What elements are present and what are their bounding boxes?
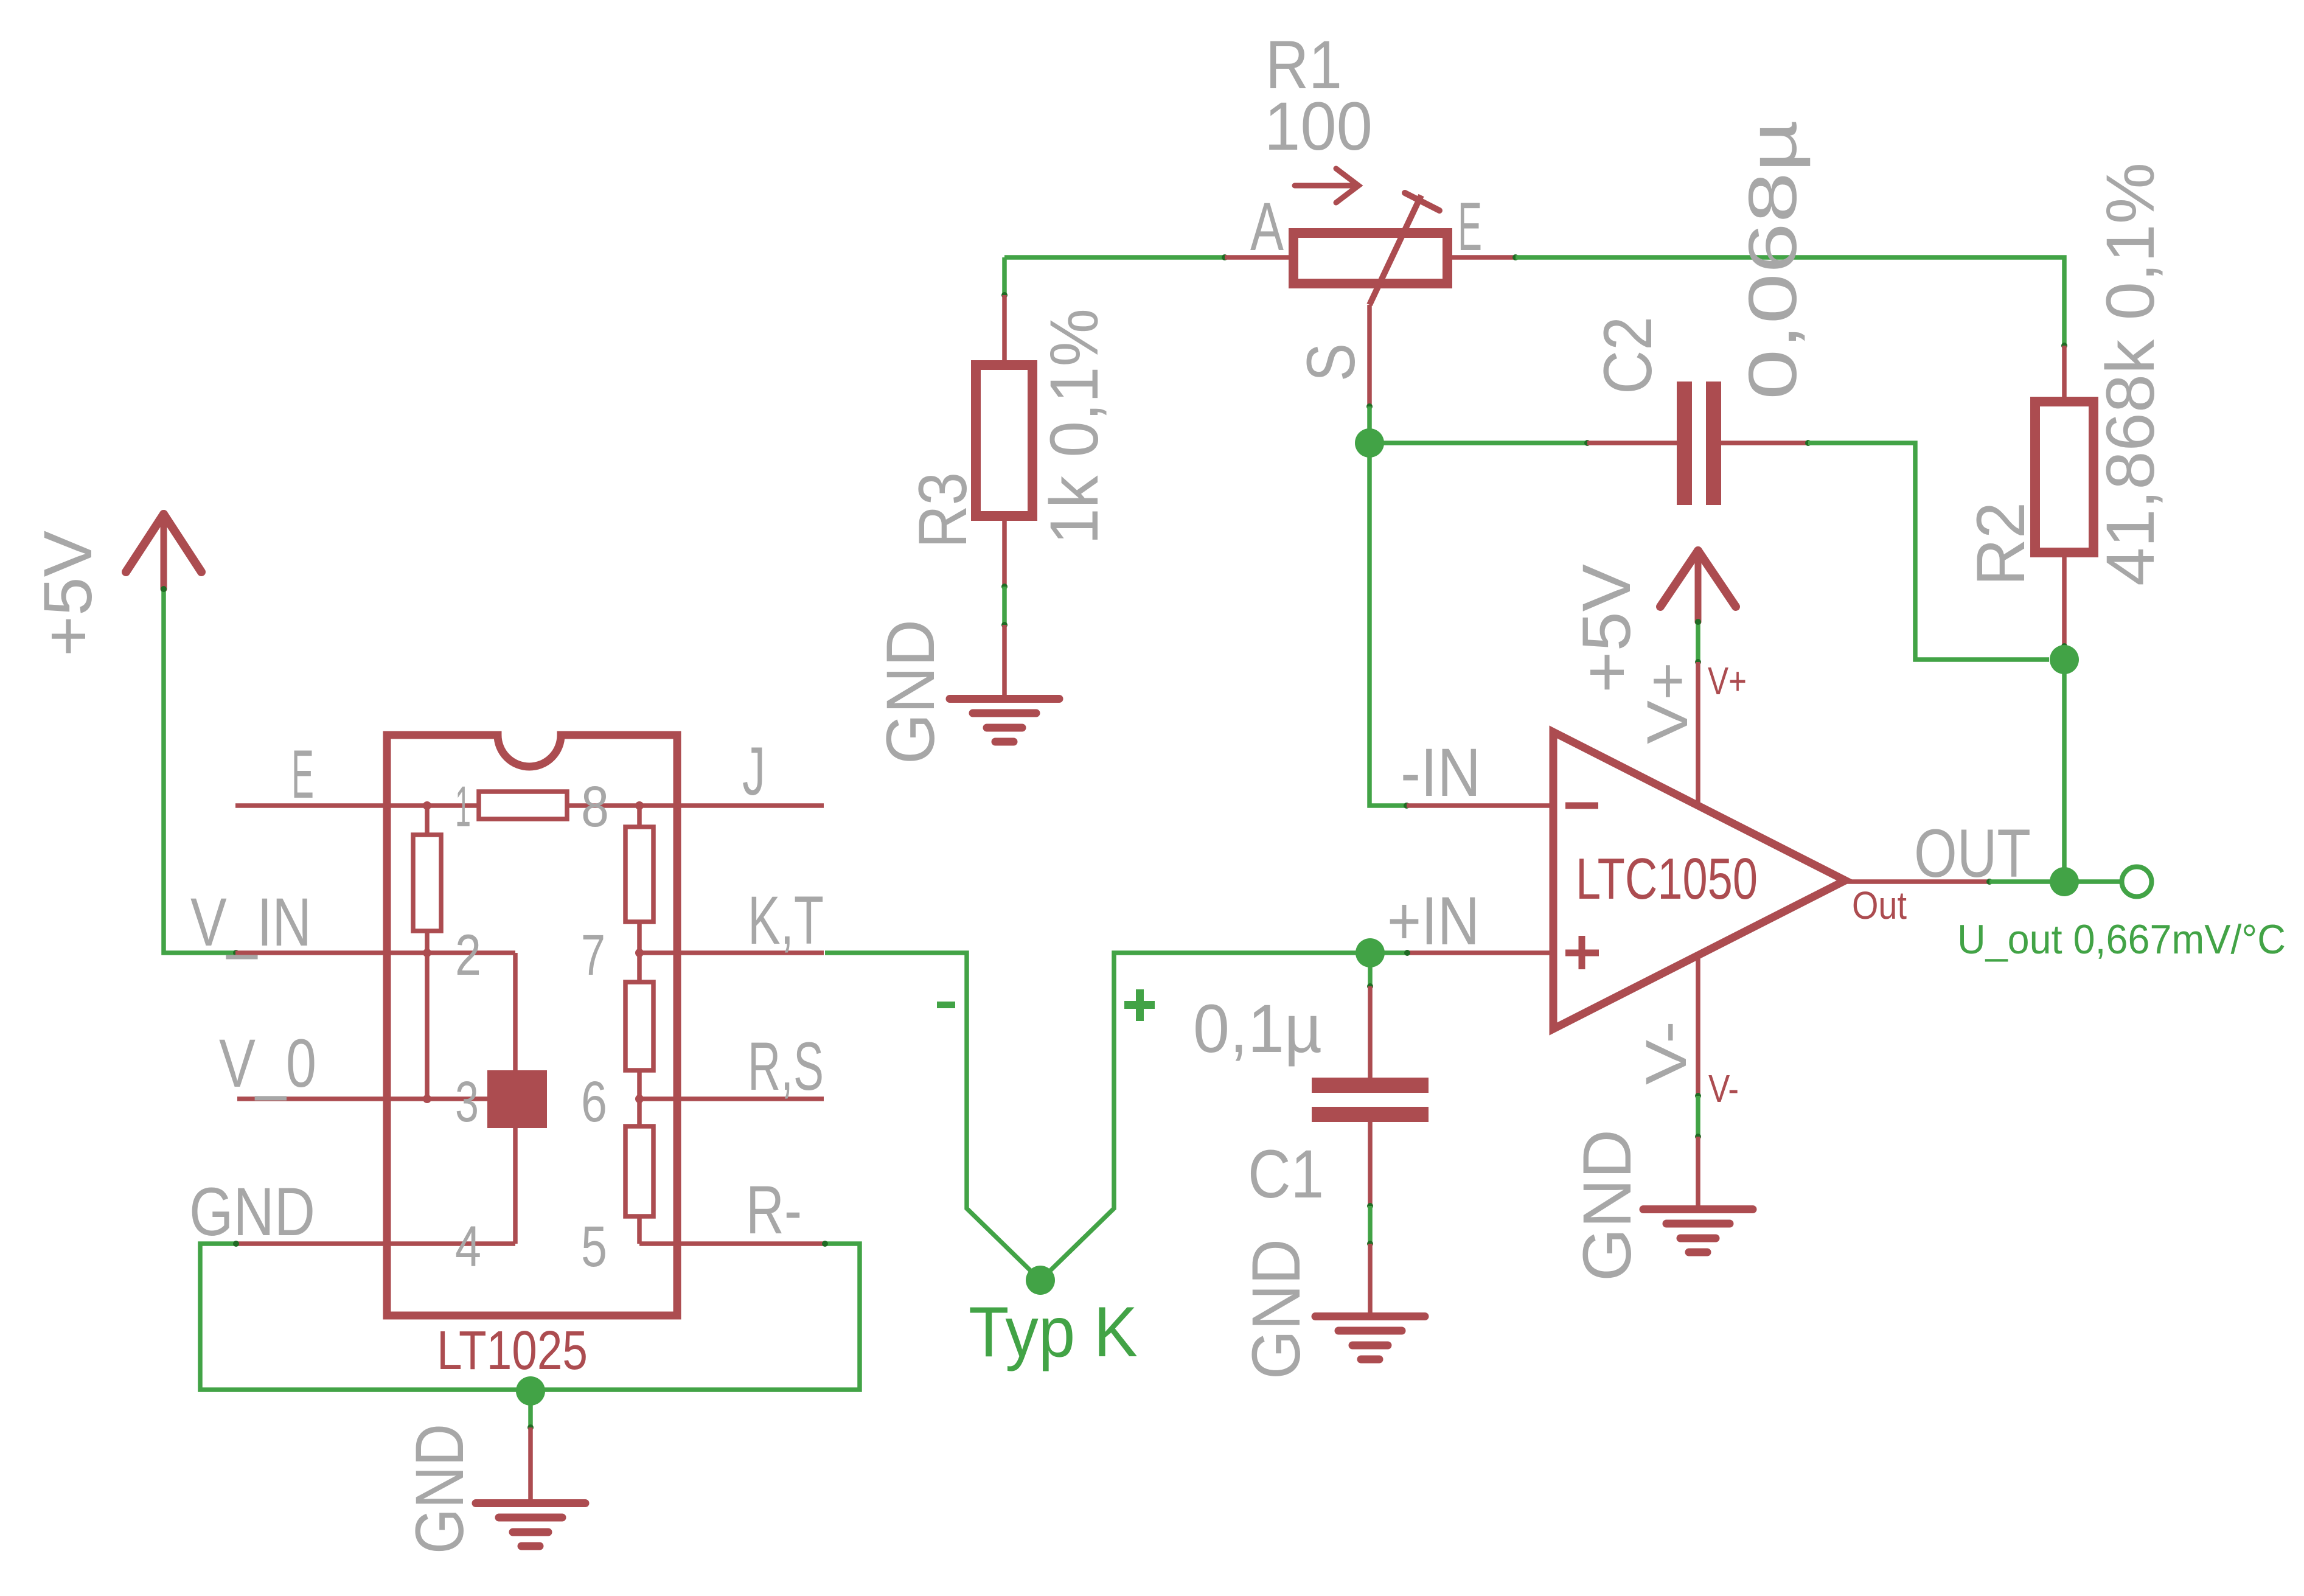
svg-text:V_0: V_0 bbox=[219, 1025, 316, 1101]
svg-text:7: 7 bbox=[581, 923, 605, 988]
R1 wiper bbox=[1370, 195, 1421, 305]
potentiometer R1 bbox=[1225, 255, 1293, 260]
svg-text:GND: GND bbox=[1569, 1129, 1645, 1281]
svg-text:4: 4 bbox=[455, 1214, 481, 1279]
svg-text:V-: V- bbox=[1708, 1067, 1739, 1110]
svg-text:C1: C1 bbox=[1248, 1136, 1324, 1212]
internal wire pin2 to pin3 bbox=[425, 953, 430, 1099]
node output junction bbox=[2050, 867, 2079, 896]
capacitor C2 bbox=[1587, 441, 1677, 445]
plus input mark bbox=[1565, 950, 1599, 957]
internal resistor left (pin1-pin2) bbox=[425, 806, 430, 835]
internal resistor right mid (pin7-pin6) bbox=[637, 953, 642, 982]
svg-text:2: 2 bbox=[455, 923, 481, 988]
svg-text:1: 1 bbox=[455, 775, 471, 839]
wire V+ bbox=[1696, 622, 1700, 662]
svg-text:E: E bbox=[291, 736, 314, 812]
pin 4 line (GND) bbox=[235, 1241, 515, 1246]
pin -IN bbox=[1407, 803, 1553, 808]
plus polarity mark bbox=[1124, 1001, 1155, 1009]
svg-text:A: A bbox=[1250, 189, 1284, 265]
svg-text:S: S bbox=[1293, 343, 1369, 382]
terminal U_out bbox=[2122, 867, 2152, 897]
ground GND (op-amp V-) bbox=[1696, 1137, 1700, 1207]
svg-text:C2: C2 bbox=[1590, 316, 1666, 394]
wire node to C2 left bbox=[1370, 441, 1587, 445]
pin OUT bbox=[1845, 879, 1989, 884]
wire R1 E to R2 top bbox=[1516, 257, 2064, 346]
pin 7 line (K,T) bbox=[639, 950, 824, 955]
svg-text:41,868k 0,1%: 41,868k 0,1% bbox=[2092, 162, 2168, 586]
svg-text:+5V: +5V bbox=[30, 531, 106, 657]
wire OUT node bbox=[1989, 879, 2121, 884]
thermocouple Typ K wires bbox=[825, 953, 1040, 1280]
pin 3 line (V_0) bbox=[237, 1096, 487, 1101]
ground GND (below R3) bbox=[1002, 625, 1007, 696]
ground GND (under LT1025) bbox=[528, 1427, 533, 1500]
svg-text:+IN: +IN bbox=[1387, 883, 1480, 959]
resistor R3 bbox=[1002, 257, 1007, 295]
svg-text:R3: R3 bbox=[905, 472, 981, 548]
svg-text:0,1µ: 0,1µ bbox=[1193, 991, 1322, 1067]
svg-text:100: 100 bbox=[1264, 88, 1373, 164]
svg-text:V_IN: V_IN bbox=[190, 884, 311, 960]
IC U1 LT1025 body bbox=[387, 735, 677, 1315]
pin 5 line (R-) bbox=[639, 1241, 824, 1246]
junction GND net bbox=[516, 1376, 545, 1406]
svg-text:-IN: -IN bbox=[1401, 734, 1481, 810]
R1 arrow bbox=[1295, 169, 1359, 203]
svg-text:R-: R- bbox=[746, 1172, 802, 1248]
junction pin1 bbox=[423, 801, 431, 810]
node S junction bbox=[1355, 428, 1384, 458]
pin +IN bbox=[1407, 950, 1553, 955]
power +5V supply symbol (left) bbox=[126, 514, 201, 589]
svg-text:E: E bbox=[1458, 189, 1482, 265]
pin 2 line (V_IN) bbox=[235, 950, 515, 955]
node +IN junction bbox=[1356, 938, 1385, 967]
svg-text:5: 5 bbox=[581, 1214, 607, 1279]
svg-text:Out: Out bbox=[1852, 883, 1907, 927]
ground GND (below C1) bbox=[1368, 1244, 1373, 1314]
junction pin8 bbox=[635, 801, 644, 810]
internal wire pin2 down to square bbox=[513, 953, 518, 1070]
svg-text:R,S: R,S bbox=[748, 1028, 824, 1104]
wire V- bbox=[1696, 1096, 1700, 1137]
svg-text:8: 8 bbox=[581, 775, 609, 839]
svg-text:V+: V+ bbox=[1635, 662, 1700, 744]
svg-text:V+: V+ bbox=[1708, 659, 1747, 703]
pin-end dot V_IN bbox=[233, 950, 239, 956]
svg-text:GND: GND bbox=[1238, 1239, 1314, 1379]
svg-text:6: 6 bbox=[581, 1070, 607, 1134]
svg-text:+5V: +5V bbox=[1568, 564, 1644, 693]
svg-text:LT1025: LT1025 bbox=[437, 1320, 588, 1381]
node Typ K junction bbox=[1026, 1266, 1055, 1295]
svg-text:GND: GND bbox=[189, 1174, 315, 1250]
wire C2 right to R2 bottom junction bbox=[1808, 443, 2049, 660]
wire +5V to V_IN bbox=[164, 589, 236, 953]
internal filled square (pin3) bbox=[487, 1070, 547, 1128]
node R2 bottom junction bbox=[2050, 645, 2079, 674]
svg-text:GND: GND bbox=[402, 1424, 478, 1554]
svg-text:U_out 0,667mV/°C: U_out 0,667mV/°C bbox=[1957, 916, 2286, 963]
svg-text:K,T: K,T bbox=[748, 882, 824, 958]
wire node down to -IN pin bbox=[1370, 443, 1407, 806]
junction pin2 bbox=[423, 949, 431, 957]
svg-text:Typ K: Typ K bbox=[969, 1292, 1138, 1371]
pin V+ bbox=[1696, 662, 1700, 808]
wire GND loop under LT1025 bbox=[200, 1244, 860, 1390]
resistor R2 bbox=[2062, 346, 2067, 402]
svg-text:GND: GND bbox=[872, 619, 948, 764]
internal resistor right top (pin8-pin7) bbox=[637, 806, 642, 827]
svg-text:LTC1050: LTC1050 bbox=[1576, 846, 1758, 911]
pin 6 line (R,S) bbox=[639, 1096, 824, 1101]
capacitor C1 bbox=[1368, 953, 1373, 986]
svg-text:J: J bbox=[742, 733, 765, 809]
pin V- bbox=[1696, 953, 1700, 1096]
wire junction to gnd pin bbox=[528, 1391, 533, 1427]
internal resistor right bottom (pin6-pin5) bbox=[637, 1099, 642, 1126]
op-amp U2 LTC1050 bbox=[1553, 732, 1845, 1029]
svg-text:3: 3 bbox=[455, 1070, 479, 1134]
wire top net R3/R1 bbox=[1004, 255, 1225, 260]
internal resistor pins1-8 bbox=[479, 792, 567, 819]
minus input mark bbox=[1565, 803, 1598, 809]
svg-text:1k 0,1%: 1k 0,1% bbox=[1036, 308, 1112, 545]
svg-text:R2: R2 bbox=[1963, 502, 2039, 586]
wire S to -IN node bbox=[1367, 406, 1372, 443]
minus polarity mark bbox=[937, 1002, 955, 1008]
pin 1 line (E) bbox=[235, 803, 479, 808]
power +5V arrow (op-amp V+) bbox=[1660, 551, 1736, 622]
svg-text:0,068µ: 0,068µ bbox=[1735, 120, 1811, 400]
svg-text:V-: V- bbox=[1634, 1021, 1699, 1085]
